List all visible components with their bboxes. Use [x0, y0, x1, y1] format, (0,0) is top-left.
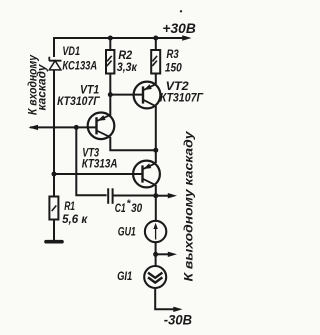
node: R2 top junction — [108, 36, 113, 41]
wire: input wire to VT1 base — [30, 126, 97, 128]
svg-text:R1: R1 — [64, 199, 75, 213]
wire: junction down to C1 — [76, 127, 106, 195]
svg-text:+30В: +30В — [162, 20, 195, 36]
wire: output node down to GU1 — [155, 196, 157, 221]
svg-text:R3: R3 — [167, 47, 179, 61]
current source GU1 — [145, 221, 166, 242]
wire: VT2 base lead — [110, 94, 143, 96]
svg-text:3,3к: 3,3к — [117, 60, 138, 74]
wire: VT2 collector down to junction — [155, 106, 157, 150]
ground (chassis) symbol — [46, 240, 62, 244]
wire: lower node to GI1 — [155, 254, 157, 266]
arrow: to input stage — [29, 125, 39, 130]
svg-text:VD1: VD1 — [62, 44, 80, 58]
transistor VT1 — [88, 113, 115, 140]
wire: junction down to VT3 emitter — [155, 150, 157, 163]
current source GI1 — [144, 266, 166, 288]
wire: left rail upper segment — [53, 37, 55, 57]
zener diode VD1 — [49, 57, 62, 70]
transistor VT2 — [134, 82, 161, 109]
label: K vhodnomu kaskadu (rotated) — [27, 54, 48, 115]
svg-text:GI1: GI1 — [117, 269, 132, 283]
wire: VT3 base lead from rail — [54, 173, 143, 175]
speck — [180, 10, 182, 12]
svg-text:каскаду: каскаду — [37, 64, 49, 111]
wire: top +30V rail — [54, 37, 184, 39]
wire: R2 bottom to VT2 base node — [109, 74, 111, 95]
wire: VT1 emitter up to node — [109, 95, 111, 116]
wire: GI1 down to -30V — [155, 288, 174, 309]
node: VT3 base / rail junction — [52, 172, 57, 177]
svg-text:-30В: -30В — [164, 312, 192, 328]
node: VT2 collector / VT3 emitter junction — [153, 148, 158, 153]
power +30V arrow — [182, 35, 191, 40]
svg-text:5,6 к: 5,6 к — [62, 212, 88, 226]
svg-text:К выходному каскаду: К выходному каскаду — [182, 130, 196, 282]
wire: GU1 to lower output node — [155, 242, 157, 254]
svg-text:КТ3107Г: КТ3107Г — [57, 94, 100, 108]
resistor R3 — [151, 50, 160, 74]
wire: C1 to output node — [113, 195, 156, 197]
svg-text:GU1: GU1 — [118, 225, 136, 239]
wire: R3 top lead — [155, 38, 157, 50]
svg-text:КТ313А: КТ313А — [82, 157, 118, 171]
svg-text:150: 150 — [165, 61, 182, 75]
transistor VT3 — [133, 161, 160, 188]
svg-text:30: 30 — [131, 201, 142, 215]
node: VT1 base / C1 branch junction — [74, 125, 79, 130]
svg-text:КС133А: КС133А — [62, 59, 97, 73]
wire: VT3 collector to output node — [155, 185, 157, 196]
node: output junction lower — [153, 252, 158, 257]
resistor R2 — [106, 50, 114, 74]
power -30V arrow — [173, 307, 182, 312]
wire: R2 top lead — [109, 38, 111, 50]
svg-text:КТ3107Г: КТ3107Г — [160, 91, 204, 105]
node: VT2 base / VT1 emitter junction — [108, 92, 113, 97]
wire: R1 to ground — [53, 220, 55, 241]
capacitor C1 — [108, 188, 112, 204]
node: R3 top junction — [153, 36, 158, 41]
arrow: to output stage (upper) — [156, 195, 169, 197]
node: output junction upper — [153, 193, 158, 198]
resistor R1 — [49, 197, 58, 220]
wire: left rail middle segment (VD1 to R1) — [53, 70, 55, 197]
svg-text:С1: С1 — [115, 201, 126, 215]
wire: R3 bottom to VT2 emitter — [155, 74, 157, 85]
wire: VT1 collector down and right — [110, 137, 156, 150]
arrow: to output stage (lower) — [156, 253, 169, 255]
